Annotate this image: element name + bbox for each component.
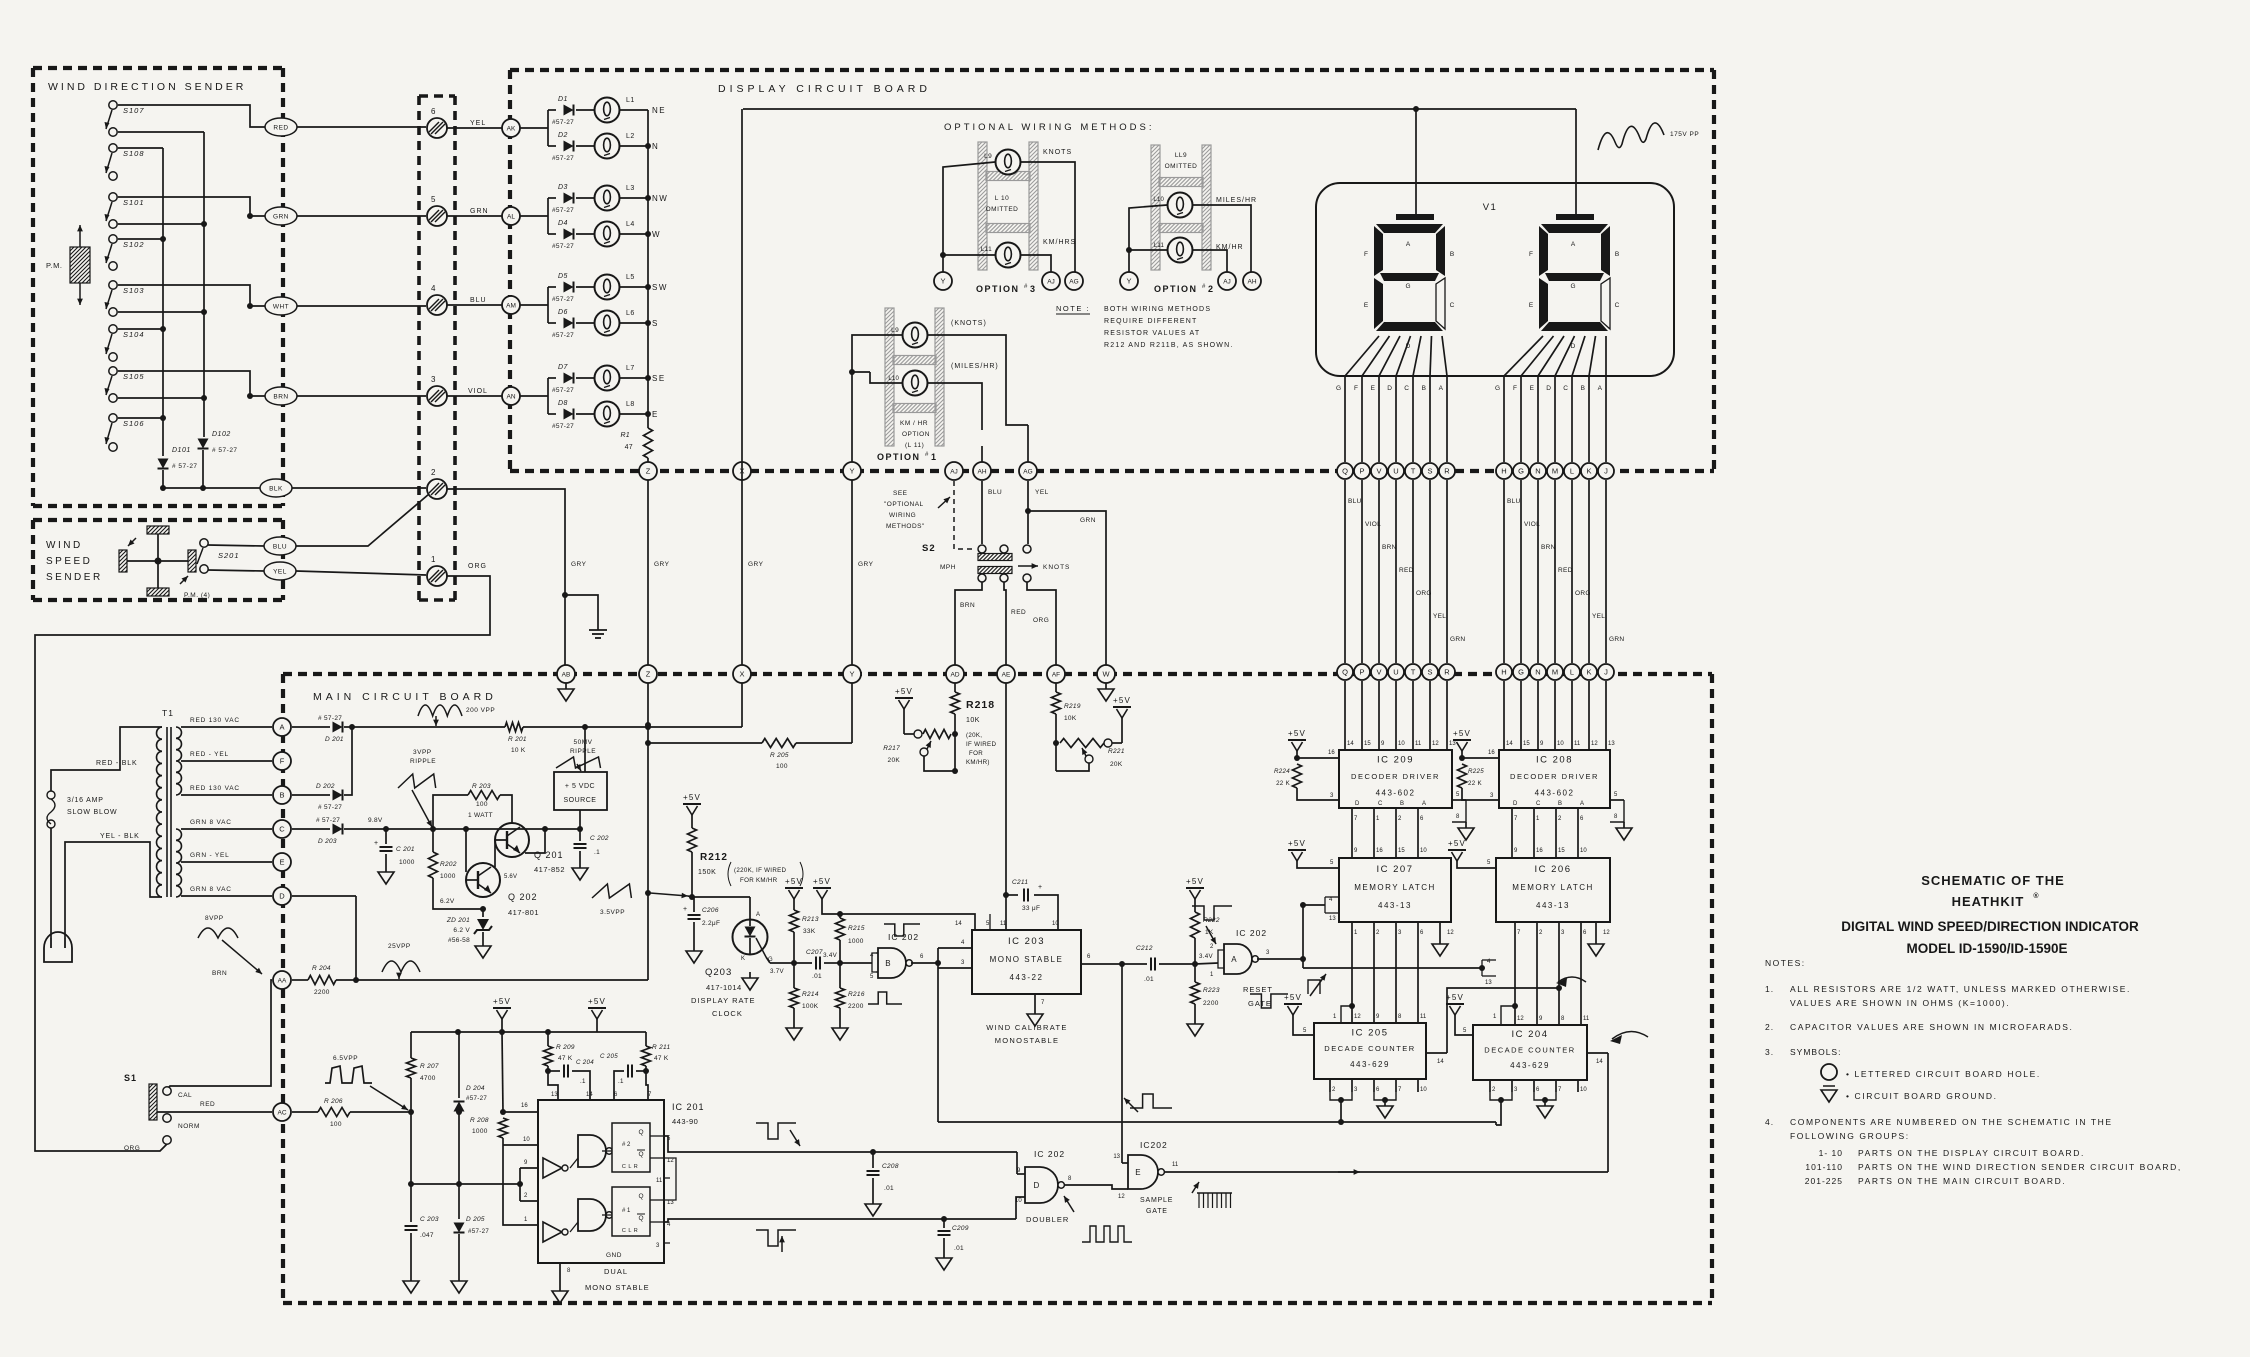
lamp L7 [576,365,648,391]
wire AA to S1 [167,970,272,1089]
svg-text:.01: .01 [884,1185,894,1192]
svg-text:RED: RED [273,125,288,132]
hole AC [273,1103,291,1121]
svg-text:J: J [1604,668,1608,677]
wires IC207 to IC205 [1352,922,1427,1023]
IC209 pin5 8 ground [1452,792,1474,840]
svg-text:1.: 1. [1765,984,1774,994]
svg-text:15: 15 [1364,741,1371,747]
svg-text:R 205: R 205 [770,752,789,759]
IC203 pin7 ground [1027,994,1045,1026]
switch S106 [105,414,145,451]
hole Z main [639,665,657,683]
+5V symbol R222 [1186,877,1204,899]
svg-text:AC: AC [277,1110,286,1117]
IC204 curved arrow [1610,1031,1648,1044]
svg-text:+: + [374,840,378,847]
svg-text:D5: D5 [558,273,568,280]
svg-text:WIRING: WIRING [889,512,916,519]
option3 KM/HRS label [1043,239,1076,246]
option1 caption [877,452,936,462]
svg-text:G: G [1518,467,1524,476]
lamp L2 [576,133,648,159]
svg-text:E: E [1371,385,1376,392]
diode D4 [552,220,574,250]
svg-text:MONO STABLE: MONO STABLE [990,955,1064,964]
hole AH option2 [1243,272,1261,290]
+5V symbol R209 [588,997,606,1032]
resistor R224 [1274,750,1339,800]
wire S101 bottom [118,221,207,227]
svg-text:D102: D102 [212,431,231,438]
T1 secondary winding lower [176,829,182,897]
svg-text:SAMPLE: SAMPLE [1140,1197,1173,1204]
feedback wire gate B down [937,968,939,1122]
svg-text:PARTS ON THE MAIN CIRCUIT BOAR: PARTS ON THE MAIN CIRCUIT BOARD. [1858,1176,2066,1186]
wires HGNMLKJ to IC208 [1504,681,1615,750]
svg-text:R215: R215 [848,925,865,932]
svg-text:KM/HRS: KM/HRS [1043,239,1076,246]
lamp L4 [576,221,648,247]
wire B to A junction [344,724,355,795]
svg-text:GND: GND [606,1252,622,1259]
svg-text:L8: L8 [626,401,635,408]
wire +5V to IC205 pin5 [1293,1015,1314,1035]
hole T top [1405,463,1421,479]
svg-text:OMITTED: OMITTED [1165,163,1198,170]
svg-text:BLU: BLU [988,489,1002,496]
IC203 box [972,930,1081,994]
resistor R219 [1052,683,1081,746]
svg-text:S103: S103 [123,286,145,295]
IC201 gate 1 [578,1135,612,1167]
wire sample out up to IC204 pin14 [1607,1053,1609,1172]
svg-text:F: F [280,757,285,766]
note 3 [1765,1047,1841,1057]
hole L top [1564,463,1580,479]
hole S top [1422,463,1438,479]
wire +5V to IC204 pin5 [1455,1015,1473,1035]
svg-text:+5V: +5V [813,877,831,886]
IC205 pin1 strap [1333,1003,1355,1023]
svg-text:B: B [1558,801,1562,807]
svg-text:C 202: C 202 [590,835,609,842]
svg-text:D 202: D 202 [316,783,335,790]
wire S107 bottom [118,131,204,133]
svg-text:D 203: D 203 [318,838,337,845]
svg-text:S: S [652,319,659,328]
svg-text:OMITTED: OMITTED [986,206,1019,213]
svg-text:22 K: 22 K [1276,780,1291,787]
svg-text:S106: S106 [123,419,145,428]
svg-text:100: 100 [776,763,788,770]
svg-text:14: 14 [1506,741,1513,747]
GRY labels [571,561,874,568]
svg-text:6.2V: 6.2V [440,898,455,905]
wire Q202 collector to Q201 base [495,840,517,880]
hole H top [1496,463,1512,479]
main circuit board title [313,691,497,703]
+5VDC source box [554,727,607,810]
digit1 segment fanout wires [1336,336,1447,462]
capacitor C206 polarized [683,897,720,945]
svg-text:NORM: NORM [178,1123,200,1130]
wire S105 top to BRN [118,371,265,399]
svg-text:12: 12 [1447,930,1454,936]
50MV ripple waveform [556,739,601,771]
wind calibrate monostable label [986,1023,1067,1045]
ZD201 ground [475,940,491,958]
capacitor C211 polarized [1006,879,1059,930]
svg-text:BLK: BLK [269,486,283,493]
T1 tap B [181,785,272,795]
svg-text:R224: R224 [1274,768,1290,775]
svg-text:RESISTOR VALUES AT: RESISTOR VALUES AT [1104,330,1200,337]
wire L6 row [548,322,556,324]
svg-text:BRN: BRN [212,970,227,977]
R223 ground [1187,1018,1203,1036]
svg-text:E: E [279,858,284,867]
svg-text:AK: AK [507,126,516,133]
wire B line [292,794,330,796]
svg-text:RED: RED [1399,567,1414,574]
svg-text:12: 12 [1603,930,1610,936]
svg-text:3.4V: 3.4V [1199,953,1214,960]
svg-text:M: M [1552,467,1558,476]
svg-text:# 57-27: # 57-27 [318,804,342,811]
IC207 pin12 ground [1432,922,1454,956]
anode rail [743,106,1576,112]
svg-text:AD: AD [950,672,959,679]
svg-text:C: C [1404,385,1409,392]
wire 5VDC to C202 node [577,810,583,832]
hole U top [1388,463,1404,479]
wire reset to IC206 pins 4 13 [1303,959,1496,986]
svg-text:DECODER DRIVER: DECODER DRIVER [1351,772,1440,781]
schematic title [1841,873,2139,956]
resistor R206 [318,1098,350,1128]
option3 lamp L9 [984,150,1020,175]
option2 wiring [1126,205,1251,272]
resistor R215 [836,911,865,963]
+5V symbol IC205 [1284,993,1302,1015]
fuse 3/16A [47,791,117,828]
switch S101 [105,193,145,228]
svg-text:DUAL: DUAL [604,1267,628,1276]
hole H main [1496,664,1512,680]
pulse waveform upper [756,1123,800,1146]
option1 miles label [951,363,999,370]
svg-text:S201: S201 [218,551,240,560]
wire to gate D pin9 [1017,1152,1025,1174]
wire L5 row [520,287,556,323]
diode D6 [552,309,574,339]
svg-text:DISPLAY CIRCUIT BOARD: DISPLAY CIRCUIT BOARD [718,83,931,95]
svg-text:# 57-27: # 57-27 [316,817,340,824]
pulse waveform lower [756,1230,796,1252]
diode D101 [158,447,198,470]
svg-text:AJ: AJ [950,469,958,476]
svg-text:13: 13 [1113,1154,1120,1160]
7-segment digit 2 [1539,224,1610,331]
hole X top [733,462,751,480]
svg-text:+5V: +5V [683,793,701,802]
RESET GATE label [1243,985,1273,1008]
svg-text:3.7V: 3.7V [770,968,785,975]
wire IC203 pin6 out [1081,954,1125,967]
svg-text:D: D [1387,385,1392,392]
IC209 box [1339,750,1452,808]
svg-text:C: C [1536,801,1541,807]
svg-text:6.2 V: 6.2 V [453,927,470,934]
svg-text:443-90: 443-90 [672,1117,698,1126]
svg-text:A: A [1571,241,1576,248]
svg-text:+ 5 VDC: + 5 VDC [565,783,595,790]
svg-text:IC202: IC202 [1140,1140,1168,1150]
IC202 A label [1236,928,1267,938]
display tube V1 outline [1316,183,1674,376]
svg-text:B: B [1581,385,1585,392]
svg-text:IC 202: IC 202 [1236,928,1267,938]
svg-text:K: K [1586,467,1591,476]
svg-text:W: W [652,230,661,239]
svg-text:16: 16 [521,1103,528,1109]
svg-text:15: 15 [1523,741,1530,747]
note 4 [1765,1117,2113,1141]
hole S main [1422,664,1438,680]
svg-text:YEL - BLK: YEL - BLK [100,833,140,840]
svg-text:AM: AM [506,303,516,310]
svg-text:C206: C206 [702,907,719,914]
hole Y option2 [1120,272,1138,290]
7-segment digit 1 [1374,224,1445,331]
diode D5 [552,273,574,303]
wire C line to Q201 [344,826,580,832]
svg-text:20K: 20K [888,757,901,764]
svg-text:R 204: R 204 [312,965,331,972]
optional wiring methods title [944,122,1154,133]
note text [1056,304,1233,349]
svg-text:L3: L3 [626,185,635,192]
svg-text:16: 16 [1488,750,1495,756]
svg-text:GRN 8 VAC: GRN 8 VAC [190,886,232,893]
wire input node to pins 9 2 [411,1160,538,1201]
wire terminal 5 to AL [447,215,502,217]
svg-text:IF WIRED: IF WIRED [966,741,996,748]
svg-text:47 K: 47 K [558,1055,573,1062]
IC206 box [1496,858,1610,922]
svg-text:14: 14 [1347,741,1354,747]
svg-text:8VPP: 8VPP [205,915,224,922]
svg-text:U: U [1393,668,1398,677]
wire X column drop [741,683,743,727]
wire IC203 out down to sample gate [1122,964,1172,1163]
svg-text:YEL: YEL [1035,489,1049,496]
IC202 E label [1140,1140,1168,1150]
svg-text:AH: AH [1247,279,1256,286]
svg-text:DOUBLER: DOUBLER [1026,1215,1069,1224]
wire L2 row [548,145,556,147]
pulse below gate B [868,992,902,1004]
svg-text:F: F [1354,385,1358,392]
svg-text:L10: L10 [1153,197,1164,203]
svg-text:(L 11): (L 11) [905,442,924,449]
hole U main [1388,664,1404,680]
option1 wiring [849,335,1028,462]
hole W main [1097,665,1115,683]
svg-text:WIND CALIBRATE: WIND CALIBRATE [986,1023,1067,1032]
svg-text:33K: 33K [803,928,816,935]
wire gate B output [911,960,941,966]
wire IC201 out pin4 [664,1216,1016,1222]
svg-text:100: 100 [476,801,488,808]
wire AA run [292,977,648,983]
digit2 segment letters [1529,241,1620,350]
svg-text:D 201: D 201 [325,736,344,743]
svg-text:#57-27: #57-27 [468,1228,489,1235]
svg-text:B: B [885,959,890,968]
hole X main [733,665,751,683]
diode D202 [316,783,343,811]
svg-text:AB: AB [562,672,571,679]
svg-text:R 209: R 209 [556,1044,575,1051]
svg-text:443-13: 443-13 [1536,901,1570,910]
C208 ground [865,1198,881,1216]
note 3 ground symbol [1821,1086,1998,1102]
resistor R208 [470,1117,508,1145]
IC202 D label [1034,1149,1065,1159]
svg-text:GRN: GRN [1450,636,1465,643]
svg-text:DECADE COUNTER: DECADE COUNTER [1324,1044,1415,1053]
svg-text:47 K: 47 K [654,1055,669,1062]
svg-text:F: F [1513,385,1517,392]
svg-text:11: 11 [1000,921,1007,927]
wind direction sender board outline [33,68,283,506]
svg-text:MODEL ID-1590/ID-1590E: MODEL ID-1590/ID-1590E [1906,941,2067,956]
C209 ground [936,1252,952,1270]
svg-text:P.M. (4): P.M. (4) [184,592,210,599]
hole P main [1354,664,1370,680]
svg-text:S: S [1427,467,1432,476]
IC204 bottom pins [1490,1080,1587,1125]
svg-text:G: G [1495,385,1500,392]
svg-text:175V PP: 175V PP [1670,131,1699,138]
capacitor C205 [600,1053,646,1100]
svg-text:Y: Y [849,467,854,476]
option3 KNOTS label [1043,149,1072,156]
DUAL MONO STABLE label [585,1267,650,1292]
svg-text:M: M [1552,668,1558,677]
svg-text:GATE: GATE [1146,1208,1168,1215]
3.4V label [823,952,838,959]
svg-text:L6: L6 [626,310,635,317]
wire GRN branch to W [1025,508,1106,665]
node NE [652,106,666,115]
svg-text:10: 10 [1015,1198,1022,1204]
svg-text:MAIN CIRCUIT BOARD: MAIN CIRCUIT BOARD [313,691,497,703]
option1 option L11 label [902,431,930,449]
svg-text:2200: 2200 [848,1003,864,1010]
wire A line [292,726,330,728]
P.M. magnet [34,225,126,305]
svg-text:GRN - YEL: GRN - YEL [190,852,230,859]
notes heading [1765,958,1806,968]
svg-text:12: 12 [1432,741,1439,747]
svg-text:GATE: GATE [1248,999,1272,1008]
svg-text:417-1014: 417-1014 [706,983,742,992]
svg-text:2: 2 [431,468,436,477]
capacitor C212 [1136,945,1198,983]
hole A [273,718,291,736]
svg-text:Y: Y [940,277,945,286]
wire S104 top [118,326,166,332]
svg-text:BRN: BRN [1382,544,1397,551]
svg-text:# 1: # 1 [622,1208,631,1214]
svg-text:4700: 4700 [420,1075,436,1082]
D205 ground [451,1275,467,1293]
svg-text:.1: .1 [594,849,600,856]
svg-text:H: H [1501,668,1506,677]
wire R206 to node [350,1109,414,1115]
wire gate D out to gate E [1064,1185,1128,1189]
svg-text:• CIRCUIT BOARD GROUND.: • CIRCUIT BOARD GROUND. [1846,1091,1998,1101]
wire A line to R201 [344,726,505,728]
T1 secondary winding upper [176,727,182,795]
IC208 pin5 8 ground [1610,792,1632,840]
wire L1 row [520,110,556,146]
svg-text:D 204: D 204 [466,1085,485,1092]
node NW [645,194,668,203]
hole N top [1530,463,1546,479]
svg-text:A: A [1406,241,1411,248]
S2 KNOTS label [1018,563,1070,571]
svg-text:Z: Z [646,467,651,476]
svg-text:1: 1 [931,452,936,462]
svg-text:E: E [1135,1168,1140,1177]
node BLK wire label [260,479,292,497]
node E [645,410,659,419]
svg-text:GRY: GRY [571,561,587,568]
svg-text:+5V: +5V [493,997,511,1006]
display circuit board title [718,83,931,95]
hole E [273,853,291,871]
resistor R203 loop [433,783,512,829]
terminal 1 [427,555,447,586]
svg-text:C: C [279,825,285,834]
IC206 curved arrow [1556,977,1586,987]
svg-text:Q: Q [1342,668,1348,677]
svg-text:R 201: R 201 [508,736,527,743]
svg-text:A: A [279,723,284,732]
+5V symbol IC207 [1288,839,1306,861]
wire R209 to pin13 [548,1071,558,1100]
lamp L5 [576,274,648,300]
svg-text:16: 16 [1328,750,1335,756]
wire L4 row [548,233,556,235]
svg-text:OPTIONAL WIRING METHODS:: OPTIONAL WIRING METHODS: [944,122,1154,133]
svg-text:GRN 8 VAC: GRN 8 VAC [190,819,232,826]
resistor R205 [648,739,852,771]
svg-text:11: 11 [656,1178,663,1184]
svg-text:Q 201: Q 201 [534,850,564,860]
svg-text:MEMORY LATCH: MEMORY LATCH [1512,883,1594,892]
svg-text:#57-27: #57-27 [552,423,574,430]
+5V symbol R217 [895,687,913,709]
wire Q203 gate out [766,957,797,975]
175V PP waveform [1598,123,1699,150]
IC208 box [1499,750,1610,808]
wire label YEL [470,120,486,127]
